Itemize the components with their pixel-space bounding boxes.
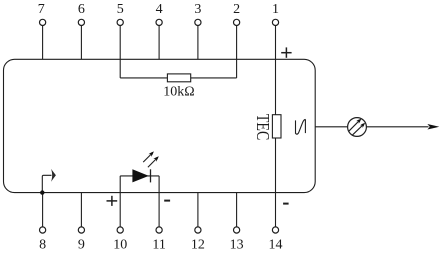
svg-text:6: 6 xyxy=(78,2,85,17)
svg-text:5: 5 xyxy=(117,2,124,17)
svg-text:14: 14 xyxy=(269,237,283,252)
svg-text:1: 1 xyxy=(272,2,279,17)
svg-text:10: 10 xyxy=(113,237,127,252)
svg-text:2: 2 xyxy=(233,2,240,17)
svg-text:TEC: TEC xyxy=(253,114,272,140)
svg-text:4: 4 xyxy=(156,2,163,17)
svg-text:8: 8 xyxy=(39,237,46,252)
svg-text:9: 9 xyxy=(78,237,85,252)
svg-text:7: 7 xyxy=(38,2,45,17)
svg-text:11: 11 xyxy=(152,237,165,252)
svg-text:10kΩ: 10kΩ xyxy=(163,84,194,99)
svg-text:13: 13 xyxy=(230,237,244,252)
svg-text:3: 3 xyxy=(194,2,201,17)
svg-text:12: 12 xyxy=(191,237,205,252)
